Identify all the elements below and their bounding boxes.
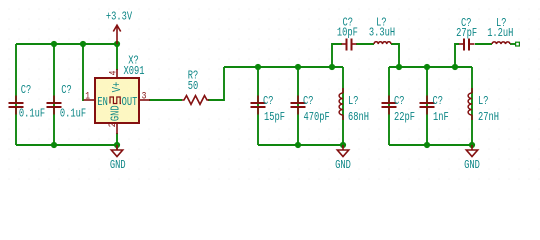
node EN top	[80, 41, 86, 47]
resistor R? 50	[182, 96, 209, 105]
pin 4 (V+)	[116, 69, 118, 78]
pin 1 (EN)	[84, 99, 96, 101]
svg-text:50: 50	[188, 80, 198, 94]
wire bottom-left rail	[16, 144, 117, 146]
wire 1.2uH to port	[510, 43, 516, 45]
wire 470pF branch	[297, 67, 299, 145]
wire 68nH branch	[342, 67, 344, 145]
node gnd3	[469, 142, 475, 148]
node series2 tap	[452, 64, 458, 70]
wire stage1 bottom rail	[258, 144, 343, 146]
svg-text:470pF: 470pF	[304, 111, 330, 125]
pin 3 (OUT)	[139, 99, 150, 101]
wire 22pF branch	[388, 67, 390, 145]
svg-text:27pF: 27pF	[456, 27, 477, 41]
svg-text:1.2uH: 1.2uH	[487, 27, 513, 41]
wire resistor to stage1	[208, 67, 224, 100]
square-wave glyph inside X091	[110, 97, 121, 104]
node series1 tap	[329, 64, 335, 70]
svg-text:OUT: OUT	[122, 96, 138, 110]
capacitor C7 1nF	[420, 96, 435, 115]
svg-text:EN: EN	[97, 96, 107, 110]
svg-text:3: 3	[142, 89, 147, 101]
node 470pF bottom	[295, 142, 301, 148]
svg-text:15pF: 15pF	[264, 111, 285, 125]
inductor L1 68nH (vertical)	[339, 88, 343, 120]
wire left vertical branch (C1)	[15, 44, 17, 145]
node C2 bottom	[51, 142, 57, 148]
svg-text:0.1uF: 0.1uF	[19, 107, 45, 121]
wire between 10pF and 3.3uH	[356, 43, 374, 45]
capacitor C8 27pF (series, horizontal)	[459, 39, 475, 51]
capacitor C4 470pF	[291, 96, 306, 115]
svg-text:X091: X091	[124, 65, 145, 79]
node +3.3V	[114, 41, 120, 47]
svg-text:C?: C?	[303, 95, 313, 109]
svg-text:3.3uH: 3.3uH	[369, 27, 395, 41]
wire pin2 to gnd	[116, 133, 118, 150]
svg-text:1: 1	[85, 89, 90, 101]
wire between 27pF and 1.2uH	[475, 43, 492, 45]
svg-text:GND: GND	[110, 159, 126, 173]
capacitor C2 0.1uF	[47, 96, 62, 115]
wire 27nH branch	[471, 67, 473, 145]
capacitor C6 22pF	[382, 96, 397, 115]
node 1nF top	[424, 64, 430, 70]
open port square (output)	[516, 42, 520, 46]
svg-text:22pF: 22pF	[394, 111, 415, 125]
svg-text:+3.3V: +3.3V	[106, 11, 133, 25]
wire stage2 bottom rail	[389, 144, 472, 146]
svg-text:V+: V+	[111, 82, 125, 92]
ground (below X091)	[111, 145, 122, 157]
power +3.3V symbol	[113, 25, 120, 44]
wire series2 branch	[455, 44, 459, 67]
svg-text:C?: C?	[21, 84, 31, 98]
svg-text:C?: C?	[394, 95, 404, 109]
node gnd2	[340, 142, 346, 148]
pin 2 (GND)	[116, 123, 118, 134]
svg-text:27nH: 27nH	[478, 111, 499, 125]
node 1nF bottom	[424, 142, 430, 148]
svg-text:C?: C?	[263, 95, 273, 109]
svg-text:C?: C?	[433, 95, 443, 109]
capacitor C3 15pF	[251, 96, 266, 115]
oscillator U1 X091 body	[95, 78, 139, 123]
svg-text:2: 2	[106, 122, 118, 127]
wire EN branch	[83, 44, 84, 100]
ground (stage1)	[337, 145, 348, 157]
inductor L4 1.2uH (horizontal)	[492, 42, 510, 44]
node 15pF top	[255, 64, 261, 70]
wire series1 branch	[332, 44, 342, 67]
inductor L3 27nH (vertical)	[468, 88, 472, 120]
svg-text:68nH: 68nH	[348, 111, 369, 125]
node C2 top	[51, 41, 57, 47]
svg-text:L?: L?	[348, 95, 358, 109]
svg-text:10pF: 10pF	[337, 27, 358, 41]
wires (green)	[16, 44, 516, 150]
node gnd1	[114, 142, 120, 148]
wire V+ branch	[116, 44, 118, 70]
svg-text:GND: GND	[335, 159, 351, 173]
node 470pF top	[295, 64, 301, 70]
svg-text:C?: C?	[61, 84, 71, 98]
wire 1nF branch	[426, 67, 428, 145]
wire stage1 top rail	[224, 66, 343, 68]
svg-text:4: 4	[106, 70, 118, 75]
wire top-left rail	[16, 43, 117, 45]
svg-text:GND: GND	[109, 105, 123, 121]
svg-text:GND: GND	[464, 159, 480, 173]
inductor L2 3.3uH (horizontal)	[374, 42, 391, 44]
capacitor C1 0.1uF	[9, 96, 24, 115]
svg-text:0.1uF: 0.1uF	[60, 107, 86, 121]
node series1 out	[396, 64, 402, 70]
svg-text:L?: L?	[478, 95, 488, 109]
svg-text:1nF: 1nF	[433, 111, 449, 125]
wire 15pF branch	[257, 67, 259, 145]
wire C2 branch	[53, 44, 55, 145]
wire stage2 top rail	[389, 66, 472, 68]
ground (stage2)	[466, 145, 477, 157]
wire OUT to resistor	[149, 99, 182, 101]
capacitor C5 10pF (series, horizontal)	[342, 39, 357, 51]
wire 3.3uH to stage2	[391, 44, 399, 67]
